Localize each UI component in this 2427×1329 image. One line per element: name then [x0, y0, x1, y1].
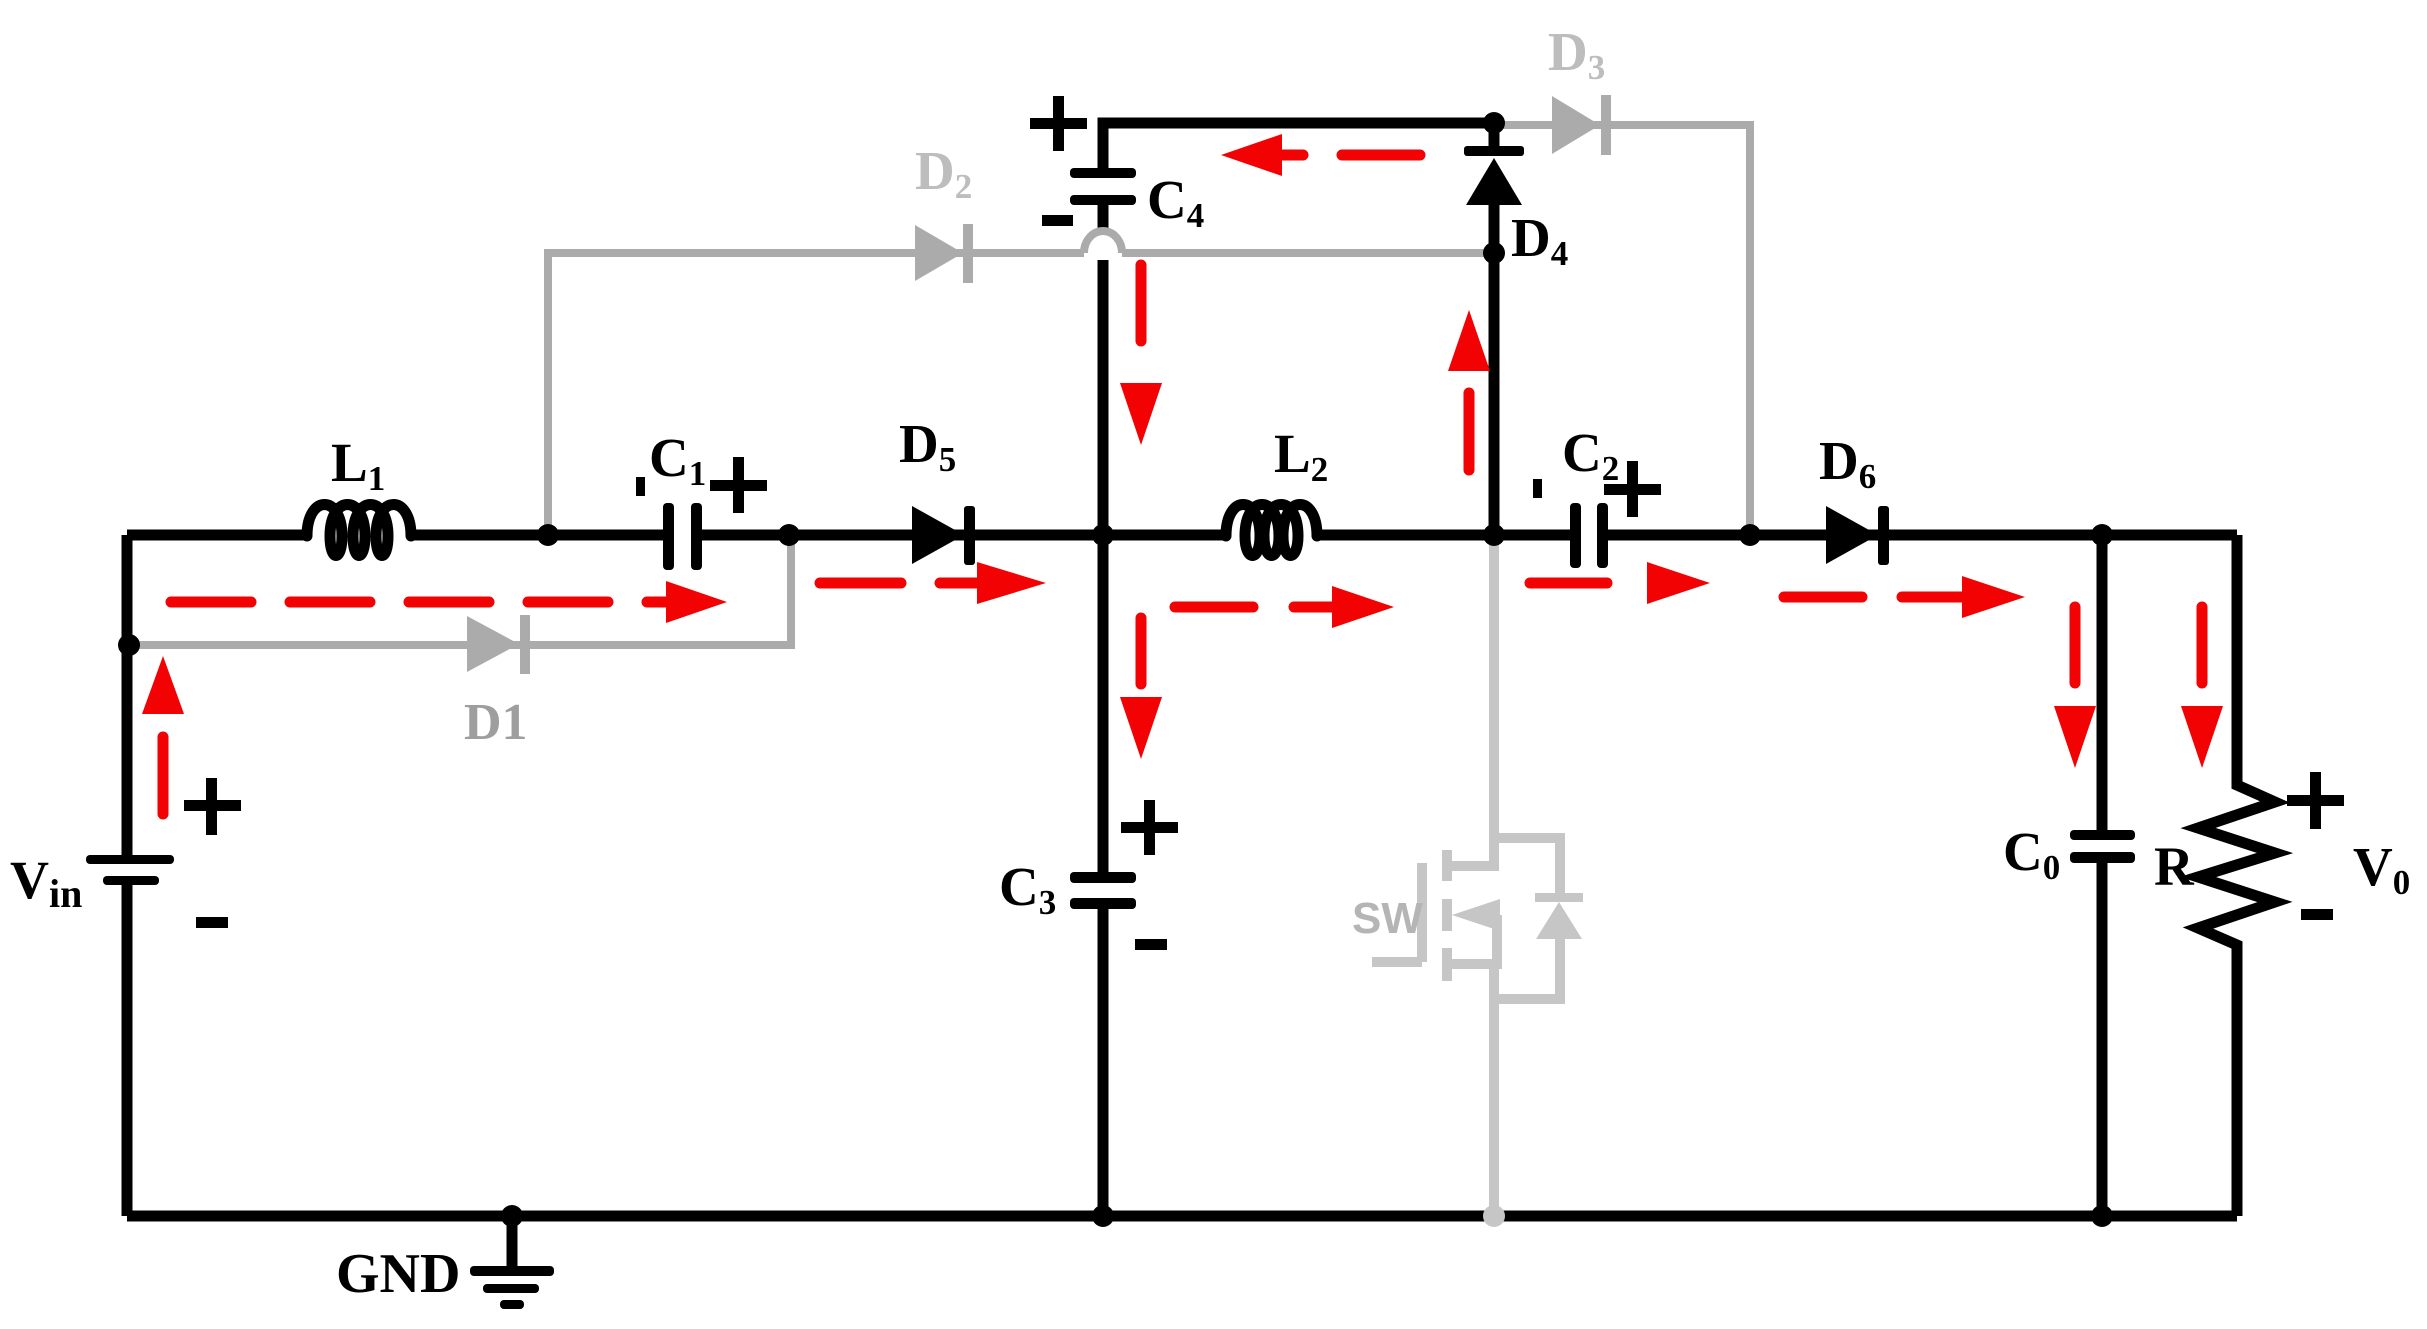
svg-text:D1: D1	[464, 694, 528, 751]
svg-text:GND: GND	[336, 1243, 460, 1305]
svg-text:SW: SW	[1352, 894, 1423, 943]
svg-text:R: R	[2154, 836, 2195, 897]
